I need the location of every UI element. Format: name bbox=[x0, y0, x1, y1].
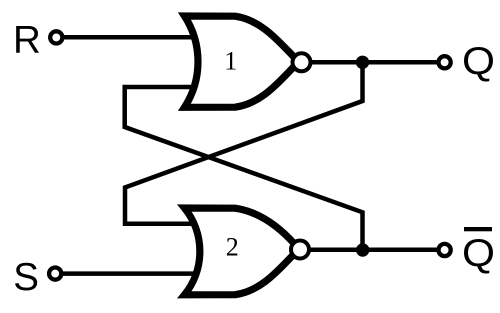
inverter bubble U1 output bbox=[293, 53, 311, 71]
wire gate2 output to Qbar bbox=[303, 248, 437, 253]
wire gate1 output to Q bbox=[304, 60, 437, 65]
svg-text:Q: Q bbox=[462, 232, 495, 275]
terminal R bbox=[50, 31, 62, 43]
svg-text:1: 1 bbox=[224, 47, 237, 76]
svg-text:Q: Q bbox=[462, 40, 495, 83]
terminal Qbar bbox=[439, 244, 451, 256]
nor-gate U1 body bbox=[185, 16, 302, 107]
inverter bubble U2 output bbox=[291, 241, 309, 259]
junction node Q bbox=[356, 56, 369, 69]
wire S input bbox=[57, 271, 196, 276]
wire gate1 lower input fed from gate2 output bbox=[125, 87, 363, 250]
junction node Qbar bbox=[356, 243, 369, 256]
overline of Qbar bbox=[464, 227, 492, 231]
wire gate2 upper input fed from gate1 output bbox=[125, 62, 363, 223]
svg-text:2: 2 bbox=[226, 233, 239, 262]
wire R input bbox=[58, 35, 196, 40]
terminal S bbox=[49, 268, 61, 280]
nor-gate U2 body bbox=[185, 208, 301, 295]
svg-text:R: R bbox=[13, 19, 41, 62]
svg-text:S: S bbox=[13, 256, 39, 299]
terminal Q bbox=[439, 56, 451, 68]
